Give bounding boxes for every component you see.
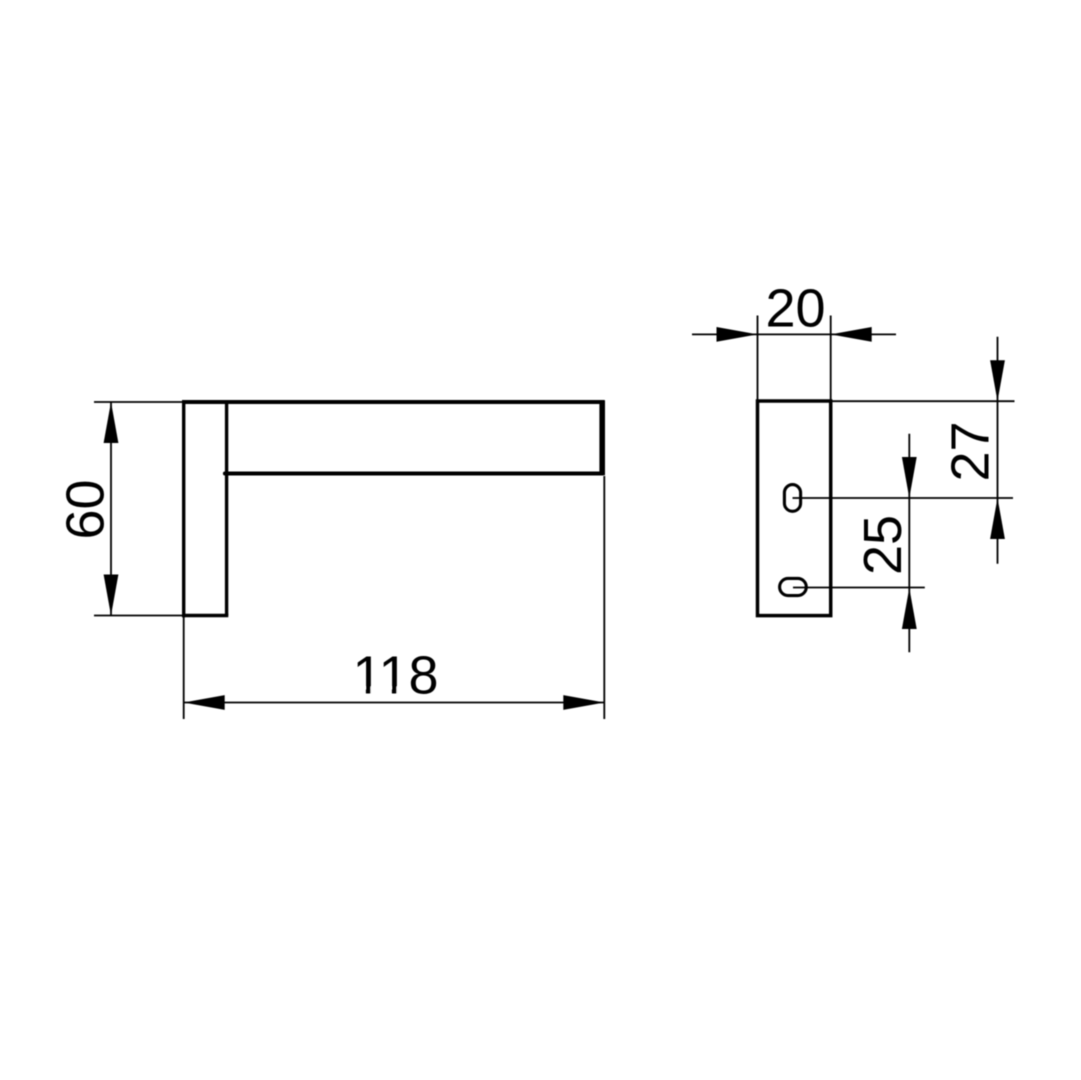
dimension line 118	[184, 702, 605, 704]
svg-text:118: 118	[352, 645, 438, 705]
extension line left (20)	[757, 316, 759, 402]
arrowhead pointing right (20)	[717, 327, 758, 342]
svg-text:20: 20	[765, 279, 825, 339]
extension line right (118)	[603, 476, 605, 719]
arrowhead left (118)	[184, 695, 225, 710]
left view: wall plate bottom edge	[182, 614, 228, 617]
arrowhead up (27)	[990, 498, 1005, 539]
left view: arm right end edge	[599, 400, 605, 475]
arrowhead up (25)	[902, 588, 917, 629]
arrowhead down (27)	[990, 360, 1005, 401]
arrowhead down (25)	[902, 457, 917, 498]
right view: mounting plate outline	[758, 401, 831, 616]
dimension line 60	[110, 402, 112, 616]
right view: lower slot hole	[780, 578, 807, 595]
left view: wall plate left edge	[182, 400, 185, 617]
extension line right (20)	[830, 316, 832, 402]
dimension line 20	[692, 333, 896, 335]
centerline through lower hole	[793, 587, 925, 589]
svg-text:27: 27	[941, 421, 1001, 481]
extension line top (27)	[832, 400, 1015, 402]
svg-text:25: 25	[853, 515, 913, 575]
centerline through upper hole	[793, 497, 1014, 499]
right view: upper slot hole	[784, 485, 800, 512]
svg-text:60: 60	[56, 479, 116, 539]
left view: top edge of wall plate and arm	[182, 400, 605, 404]
dimension line 27	[997, 337, 999, 564]
dimension line 25	[908, 434, 910, 653]
left view: wall plate right edge	[225, 402, 228, 616]
extension line left (118)	[183, 617, 185, 719]
extension line top (60)	[94, 401, 182, 403]
arrowhead right (118)	[563, 695, 604, 710]
arrowhead down (60)	[104, 575, 119, 616]
arrowhead pointing left (20)	[831, 327, 872, 342]
arrowhead up (60)	[104, 402, 119, 443]
left view: arm bottom edge	[225, 472, 603, 476]
extension line bottom (60)	[94, 615, 182, 617]
